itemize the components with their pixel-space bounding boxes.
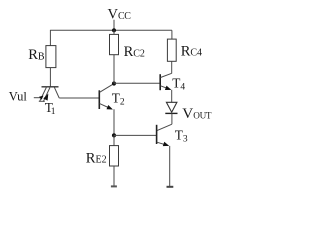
svg-text:T4: T4: [172, 75, 185, 92]
svg-text:T2: T2: [112, 91, 125, 108]
svg-text:T3: T3: [175, 127, 188, 144]
svg-text:VCC: VCC: [108, 7, 132, 23]
svg-text:VOUT: VOUT: [182, 105, 212, 122]
svg-text:T1: T1: [45, 100, 56, 117]
svg-text:Vul: Vul: [9, 89, 28, 103]
svg-text:RC4: RC4: [181, 44, 202, 60]
svg-text:RE2: RE2: [86, 150, 107, 166]
svg-text:RB: RB: [28, 47, 45, 63]
svg-text:RC2: RC2: [124, 44, 145, 60]
